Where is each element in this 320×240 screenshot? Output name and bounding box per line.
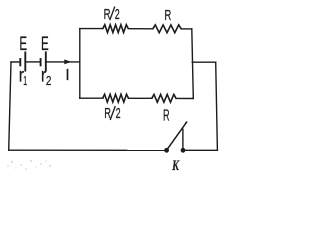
svg-text:R: R	[164, 7, 171, 24]
svg-text:I: I	[65, 67, 69, 84]
svg-text:2: 2	[46, 75, 52, 88]
svg-text:R: R	[163, 106, 170, 124]
svg-text:E: E	[19, 34, 27, 55]
svg-text:2: 2	[115, 6, 120, 23]
svg-text:E: E	[41, 34, 49, 55]
svg-text:1: 1	[23, 75, 27, 89]
svg-text:2: 2	[116, 105, 121, 122]
svg-text:K: K	[171, 157, 180, 173]
